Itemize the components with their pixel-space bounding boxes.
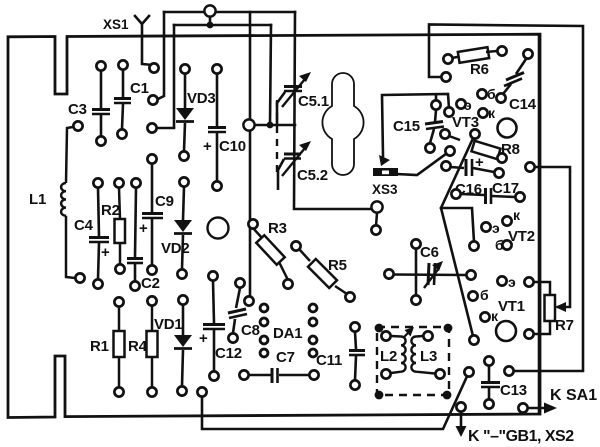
svg-text:+: + [101, 244, 110, 261]
resistor R7 [534, 282, 555, 334]
svg-text:C5.2: C5.2 [297, 167, 328, 184]
ring terminal XS3 377,207 [371, 201, 382, 226]
pad C15 top [431, 100, 440, 109]
svg-text:C6: C6 [420, 244, 439, 261]
pad VT3 base [477, 89, 486, 98]
pad L2 bottom [381, 369, 390, 378]
pad C15 bottom [425, 143, 434, 152]
pad C12 bottom [209, 371, 218, 380]
svg-text:L1: L1 [29, 191, 46, 208]
pad C6 bottom [411, 295, 420, 304]
transistor VT1 [496, 321, 516, 341]
pad zigzag bottom [469, 335, 478, 344]
svg-text:R2: R2 [101, 202, 120, 219]
resistor R6 tilted [452, 47, 497, 63]
arrowhead GB1 down [456, 426, 467, 437]
svg-text:+: + [203, 138, 212, 155]
pad R4 bottom [147, 387, 156, 396]
pad VD2 bottom [177, 269, 186, 278]
pad wire end VT3 [444, 107, 453, 116]
pad VT2 collector [502, 216, 511, 225]
pad C6 top [411, 239, 420, 248]
svg-text:к: к [488, 105, 496, 121]
wire C15 box: arrow to XS3 [382, 94, 449, 156]
transformer core arrow [403, 332, 409, 338]
svg-text:C8: C8 [241, 322, 260, 339]
pad R3 top [248, 219, 257, 228]
svg-text:XS1: XS1 [103, 17, 129, 32]
diode VD3 [176, 73, 194, 151]
junction dot 270,125 [267, 122, 274, 129]
pad C1 bottom [117, 129, 126, 138]
pad R1 top [114, 297, 123, 306]
pad L3 bottom [435, 369, 444, 378]
svg-text:C14: C14 [509, 96, 537, 113]
pad C4 top [93, 178, 102, 187]
diode VD2 [174, 187, 192, 269]
arrowheads [379, 155, 566, 437]
svg-text:K "–"GB1, XS2: K "–"GB1, XS2 [468, 428, 574, 445]
pad C3 top [96, 61, 105, 70]
capacitor C2 [127, 188, 143, 281]
wire top bus 2 [174, 24, 271, 27]
capacitor C12 electrolytic [203, 281, 225, 371]
pad L1 top [73, 121, 82, 130]
wire K SA1 arrow from pad 523,408 [523, 407, 546, 410]
pad VT3 collector [478, 108, 487, 117]
trimmer C6 [393, 249, 466, 295]
pad outer loop end [504, 366, 513, 375]
pad wire zigzag top [470, 129, 479, 138]
svg-text:R6: R6 [470, 61, 489, 78]
pad VT1 emitter [497, 276, 506, 285]
pad C1 top [118, 60, 127, 69]
capacitor C1 [114, 70, 131, 129]
junction dot ring stem 210,25 [209, 16, 212, 25]
svg-text:C7: C7 [276, 349, 295, 366]
svg-text:DA1: DA1 [273, 325, 302, 342]
svg-text:C9: C9 [155, 193, 174, 210]
pad C16 right [494, 168, 503, 177]
pad R5 top [291, 241, 300, 250]
svg-text:C13: C13 [500, 382, 527, 399]
wire top bus 1 [164, 11, 295, 14]
capacitor C11 [349, 332, 365, 380]
resistor R2 [115, 188, 126, 264]
svg-text:XS3: XS3 [372, 182, 398, 197]
pad R2 top [114, 178, 123, 187]
svg-text:C10: C10 [219, 138, 246, 155]
wire drop bus2 x=174 to VD3 bar [173, 25, 176, 127]
pad wire bottom loop [197, 387, 206, 396]
svg-text:R5: R5 [328, 257, 347, 274]
svg-text:+: + [475, 154, 484, 171]
svg-text:C11: C11 [316, 352, 342, 369]
pad R2 bottom [115, 264, 124, 273]
capacitor C17 [461, 188, 515, 204]
svg-text:VD1: VD1 [154, 316, 183, 333]
pad VD3 bottom [179, 151, 188, 160]
capacitor C3 [92, 71, 110, 136]
labels main [103, 17, 597, 445]
pad R7 bottom [524, 329, 533, 338]
pad R5 bottom [345, 292, 354, 301]
pad C3 bottom [96, 136, 105, 145]
wire C5 rotor bus [249, 124, 295, 127]
IC DA1 pads [260, 304, 317, 357]
svg-text:C15: C15 [393, 118, 420, 135]
pad R8 left [440, 129, 449, 138]
wire top outer loop [429, 25, 583, 372]
svg-text:C2: C2 [141, 275, 160, 292]
wire drop bus2 x=271 to junction 270,125 [270, 25, 271, 125]
wire XS3 to pad 450,151 [397, 151, 450, 175]
wire R7 wiper from pad 530,167 [530, 167, 570, 307]
pad C7 left [239, 370, 248, 379]
pad R4 top [147, 296, 156, 305]
pad VD1 top [178, 295, 187, 304]
pad C14 top [523, 49, 532, 58]
pad VT1 base [468, 291, 477, 300]
svg-text:C5.1: C5.1 [298, 93, 329, 110]
trimmer C5.1 [277, 79, 305, 124]
wire branch at 441,208 right and down to pad 474,246 [441, 208, 474, 242]
board outline [8, 34, 540, 417]
pad C16 left [441, 161, 450, 170]
wire stub to pad 437,105 [435, 95, 438, 100]
dashed rotor link C5 [276, 100, 278, 172]
wire stub pad to VD3 drop [153, 127, 174, 130]
pad C10 top [212, 64, 221, 73]
svg-text:б: б [487, 86, 496, 102]
wire bottom loop [202, 372, 469, 429]
pad VD3 top [180, 64, 189, 73]
pad C13 bottom [484, 399, 493, 408]
pad bus drop end [244, 296, 253, 305]
svg-text:R1: R1 [90, 338, 109, 355]
svg-text:VT1: VT1 [498, 298, 525, 315]
pad C11 bottom [350, 380, 359, 389]
transistor VT3 [498, 119, 517, 138]
trimmer C5.2 [278, 148, 305, 190]
resistor R5 tilted [299, 249, 347, 294]
wire vertical rail x=539 [538, 36, 541, 414]
wire drop from bus1 to pad near C3 [156, 12, 164, 100]
pad C2 top [131, 178, 140, 187]
arrowhead XS3 pointer [379, 155, 390, 166]
pad bus1 end [148, 95, 157, 104]
svg-text:+: + [139, 220, 148, 237]
pad R6 right [497, 46, 506, 55]
pad C11 top [350, 322, 359, 331]
mounting hole circle near VD2 [208, 218, 229, 239]
inductor L2 [391, 336, 406, 373]
svg-text:VD2: VD2 [161, 240, 190, 257]
wire drop bus1 x=295 down to XS3 bus [294, 12, 377, 209]
pad C7 right [309, 370, 318, 379]
capacitor C7 [249, 368, 309, 383]
wire GB1 arrow down from pad 461,407 [460, 407, 463, 427]
pad C10 bottom [212, 181, 221, 190]
capacitor C9 electrolytic [142, 164, 163, 265]
diode VD1 [174, 305, 192, 386]
pad L3 top [423, 331, 432, 340]
wire zigzag from pad 475,134 down to pad 474,340 [441, 134, 475, 340]
svg-text:C4: C4 [74, 217, 94, 234]
corner dots [375, 324, 453, 400]
pad C8 bottom [228, 333, 237, 342]
pad wire branch [469, 241, 478, 250]
arrowhead K SA1 [544, 403, 557, 414]
svg-text:э: э [508, 274, 516, 290]
capacitor C8 tilted [228, 288, 247, 333]
pad C13 top [484, 356, 493, 365]
pad VD3 side stub [147, 123, 156, 132]
pad L1 bottom [75, 273, 84, 282]
inductor L1 [61, 126, 78, 278]
pad GB1 arrow [456, 402, 465, 411]
XS3 connector symbol [373, 168, 398, 176]
wire drop bus1 x=250 down to pad 249,301 [249, 12, 252, 301]
pad VT2 emitter [481, 222, 490, 231]
inductor L3 [411, 336, 435, 374]
svg-text:+: + [199, 330, 208, 347]
pad R7 wiper wire [525, 162, 534, 171]
resistor R4 [147, 306, 158, 387]
pad VD1 bottom [177, 386, 186, 395]
ring terminal top 210,11 [204, 5, 215, 16]
pad VT3 emitter [456, 99, 465, 108]
svg-text:C1: C1 [130, 80, 149, 97]
capacitor C4 electrolytic [89, 188, 109, 279]
pad SA1 arrow [518, 403, 527, 412]
svg-text:R4: R4 [128, 338, 148, 355]
svg-text:к: к [513, 207, 521, 223]
pad bottom loop right [464, 367, 473, 376]
pad XS3 wire [445, 146, 454, 155]
resistor R8 tilted [449, 136, 501, 159]
svg-text:C12: C12 [215, 345, 242, 362]
ring terminal 249,125 [243, 119, 254, 130]
antenna XS1 [135, 16, 153, 65]
pad C14 bottom [496, 93, 505, 102]
pad VD2 top [179, 177, 188, 186]
svg-text:C3: C3 [68, 101, 87, 118]
capacitor C10 electrolytic [208, 72, 226, 181]
pad C2 bottom [130, 281, 139, 290]
pad C17 right [515, 192, 524, 201]
pad R6 left [443, 54, 452, 63]
pad C8 top [235, 278, 244, 287]
capacitor C13 [481, 366, 500, 399]
capacitor C14 diagonal [503, 59, 526, 94]
pad R3 bottom [283, 279, 292, 288]
arrowhead R7 wiper [555, 302, 566, 312]
svg-text:K SA1: K SA1 [550, 387, 597, 404]
pad R7 top [524, 277, 533, 286]
svg-text:R7: R7 [555, 317, 574, 334]
svg-text:R3: R3 [268, 220, 287, 237]
pad C6 left [384, 269, 393, 278]
solder pads [73, 46, 534, 412]
pad C6 right [466, 270, 475, 279]
pad XS3 ring [371, 225, 380, 234]
pad wire W-top [441, 72, 450, 81]
transformer dashed box [377, 327, 449, 395]
pad L2 top [381, 331, 390, 340]
capacitor C16 electrolytic [450, 159, 494, 176]
pad C17 left [451, 189, 460, 198]
resistor R1 [114, 307, 125, 387]
svg-text:L3: L3 [420, 348, 437, 365]
pad C9 top [147, 154, 156, 163]
pad C9 bottom [147, 265, 156, 274]
capacitor C15 [425, 110, 444, 143]
svg-text:э: э [492, 220, 500, 236]
pad XS1 antenna [149, 63, 158, 72]
svg-text:VD3: VD3 [187, 90, 216, 107]
pad C4 bottom [93, 279, 102, 288]
pad C12 top [208, 271, 217, 280]
svg-text:б: б [480, 287, 489, 303]
pad VT1 collector [480, 312, 489, 321]
pad R1 bottom [114, 387, 123, 396]
pad VT2 base [502, 240, 511, 249]
pad R8 right [497, 153, 506, 162]
resistor R3 tilted [253, 228, 288, 280]
svg-text:L2: L2 [380, 348, 397, 365]
stadium cutout hole [322, 73, 363, 175]
